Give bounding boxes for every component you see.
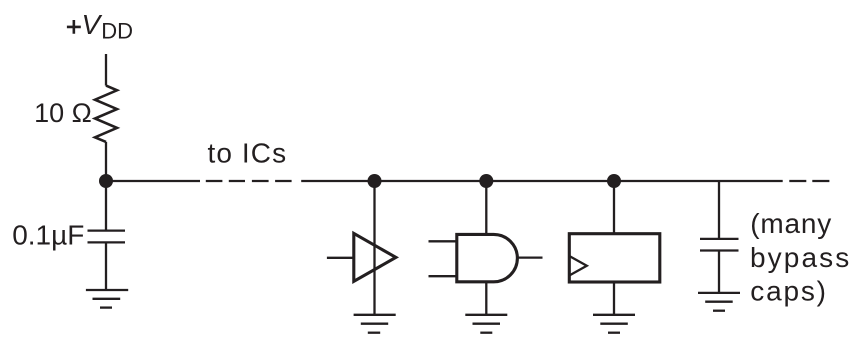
svg-text:caps): caps): [750, 276, 827, 307]
svg-text:(many: (many: [750, 208, 832, 239]
svg-text:to ICs: to ICs: [208, 138, 288, 169]
svg-text:0.1µF: 0.1µF: [12, 219, 84, 250]
svg-text:bypass: bypass: [750, 242, 851, 273]
svg-text:10 Ω: 10 Ω: [34, 98, 92, 128]
